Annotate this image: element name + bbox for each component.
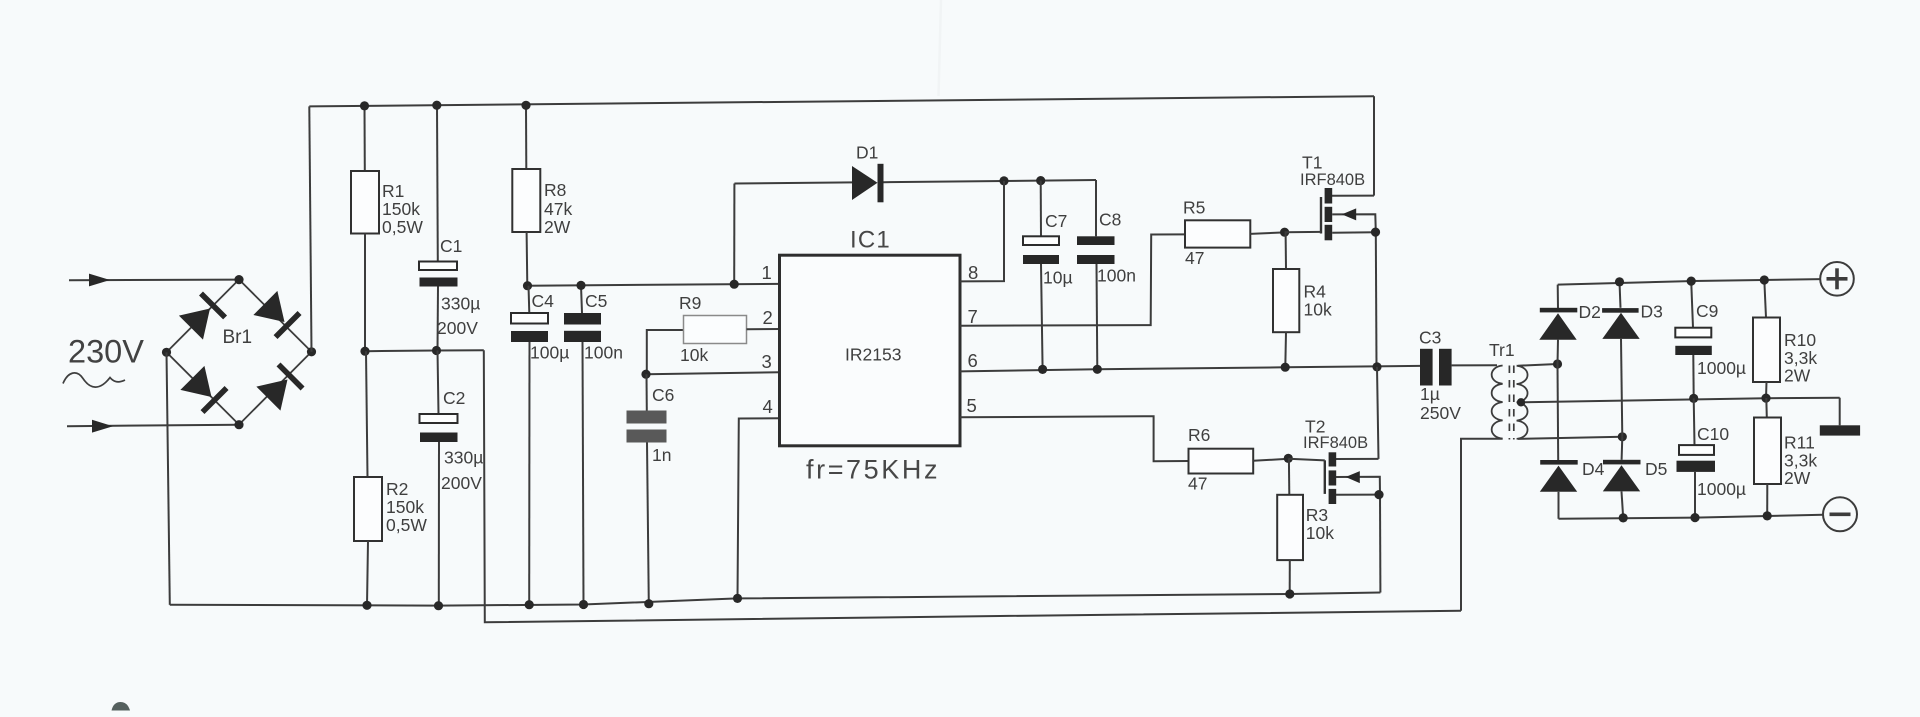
wire secondary center tap to output mid rail and ground — [1521, 398, 1840, 403]
wire IC pin 3 line — [646, 372, 780, 374]
svg-text:1000µ: 1000µ — [1697, 479, 1746, 499]
wire IC pin 6 switch-node line to C3 — [960, 366, 1420, 372]
svg-text:C9: C9 — [1696, 301, 1718, 321]
wire divider midpoint line — [365, 350, 484, 351]
svg-text:R1: R1 — [382, 181, 404, 201]
node bridge right — [307, 347, 316, 356]
svg-text:0,5W: 0,5W — [386, 515, 427, 535]
diode D5 — [1603, 437, 1668, 518]
svg-text:100n: 100n — [1097, 266, 1136, 286]
svg-text:47k: 47k — [544, 199, 572, 219]
svg-text:2W: 2W — [1784, 468, 1811, 488]
resistor R2 — [354, 351, 427, 605]
svg-text:8: 8 — [968, 262, 978, 283]
svg-text:250V: 250V — [1420, 403, 1461, 423]
node pin6 line / T1-T2 column — [1372, 362, 1381, 371]
resistor R9 — [647, 293, 780, 374]
diode D3 — [1602, 282, 1663, 437]
wire bridge left node down to ground rail — [167, 352, 170, 605]
wire IC pin 5 to R6 — [960, 416, 1189, 461]
wire midpoint to primary return rail — [484, 350, 1461, 622]
svg-text:R6: R6 — [1188, 425, 1210, 445]
svg-text:IRF840B: IRF840B — [1300, 171, 1365, 189]
svg-text:100n: 100n — [584, 343, 623, 363]
svg-text:100µ: 100µ — [530, 343, 569, 363]
diode D1 — [734, 143, 1096, 285]
node pin6 line / C7 — [1038, 365, 1047, 374]
svg-text:Br1: Br1 — [223, 327, 253, 348]
node ground rail / C5 — [579, 600, 588, 609]
capacitor C7 — [1023, 181, 1073, 370]
wire secondary top lead — [1518, 364, 1558, 366]
svg-text:0,5W: 0,5W — [382, 217, 423, 237]
resistor R10 — [1753, 280, 1817, 398]
resistor R5 — [1183, 198, 1285, 269]
node pin3 / R9 / C6 — [641, 370, 650, 379]
node ground rail / C6 — [644, 599, 653, 608]
node pin6 line / C8 — [1093, 365, 1102, 374]
IC U1 IC1 IR2153 — [780, 227, 961, 485]
capacitor C5 — [564, 285, 623, 604]
svg-text:47: 47 — [1188, 474, 1207, 494]
node output mid rail / R10 R11 — [1761, 394, 1770, 403]
svg-text:C4: C4 — [532, 291, 555, 311]
svg-text:R2: R2 — [386, 479, 408, 499]
svg-text:C7: C7 — [1045, 211, 1067, 231]
svg-text:IR2153: IR2153 — [845, 345, 901, 365]
svg-text:330µ: 330µ — [444, 448, 483, 468]
node T1 source — [1371, 228, 1380, 237]
scan speck artifact — [112, 702, 131, 711]
wire AC input top with arrow — [69, 274, 239, 287]
node pin6 line / R4 — [1281, 363, 1290, 372]
transistor Q2 T2 IRF840B — [1289, 367, 1381, 593]
svg-text:10k: 10k — [1304, 300, 1332, 320]
svg-text:2: 2 — [763, 307, 773, 328]
wire IC pin 4 line down to ground rail — [738, 418, 780, 598]
node pin1 line / D1 branch — [730, 280, 739, 289]
wire AC input bottom with arrow — [67, 420, 239, 433]
node output bottom rail / D5 — [1619, 513, 1628, 522]
node plus output terminal — [1820, 262, 1854, 296]
node output top rail / R10 — [1760, 275, 1769, 284]
resistor R3 — [1277, 459, 1334, 594]
svg-text:2W: 2W — [544, 217, 571, 237]
svg-text:2W: 2W — [1784, 366, 1811, 386]
svg-text:R11: R11 — [1784, 433, 1815, 453]
node secondary top / D2 D4 — [1553, 359, 1562, 368]
svg-text:200V: 200V — [437, 318, 478, 338]
node T2 gate / R6 / R3 — [1284, 454, 1293, 463]
wire secondary bottom lead — [1518, 437, 1622, 439]
node ground rail / R2 — [362, 601, 371, 610]
wire output top rail — [1558, 279, 1821, 285]
svg-text:C8: C8 — [1099, 210, 1121, 230]
svg-text:10k: 10k — [1306, 523, 1334, 543]
svg-text:R8: R8 — [544, 180, 566, 200]
diode D2 — [1539, 285, 1601, 364]
svg-text:T1: T1 — [1302, 153, 1322, 173]
ground — [1820, 398, 1860, 436]
resistor R6 — [1188, 425, 1289, 494]
svg-text:7: 7 — [968, 306, 978, 327]
bridge rectifier Br1 — [167, 280, 312, 425]
wire IC pin 8 up to D1 output — [960, 181, 1004, 282]
node top rail / R1 — [360, 101, 369, 110]
svg-text:10k: 10k — [680, 345, 708, 365]
node ground rail / C4 — [525, 600, 534, 609]
transistor Q1 T1 IRF840B — [1285, 96, 1377, 367]
capacitor C2 — [420, 351, 484, 606]
svg-text:D1: D1 — [856, 143, 878, 163]
node ground rail / R3 — [1285, 589, 1294, 598]
node bridge left — [162, 348, 171, 357]
svg-text:47: 47 — [1185, 248, 1204, 268]
svg-text:D3: D3 — [1641, 302, 1663, 322]
wire bridge right node to top rail — [309, 106, 311, 351]
resistor R11 — [1754, 398, 1817, 516]
svg-text:150k: 150k — [386, 497, 424, 517]
resistor R8 — [512, 105, 572, 285]
svg-text:fr=75KHz: fr=75KHz — [806, 455, 940, 485]
svg-text:R5: R5 — [1183, 198, 1205, 218]
node midpoint / C1 C2 — [432, 346, 441, 355]
capacitor C3 — [1419, 328, 1497, 424]
svg-text:C6: C6 — [652, 385, 674, 405]
svg-text:330µ: 330µ — [441, 294, 480, 314]
svg-text:4: 4 — [763, 396, 773, 417]
diode D4 — [1540, 364, 1605, 519]
svg-text:D2: D2 — [1579, 302, 1601, 322]
svg-text:1: 1 — [762, 262, 772, 283]
svg-text:1µ: 1µ — [1420, 384, 1440, 404]
svg-text:R3: R3 — [1306, 505, 1328, 525]
node R8 / C4 / pin1 line — [523, 281, 532, 290]
node minus output terminal — [1823, 497, 1857, 531]
capacitor C1 — [419, 105, 480, 350]
node output top rail / C9 — [1687, 277, 1696, 286]
svg-text:IRF840B: IRF840B — [1303, 434, 1368, 452]
svg-text:R4: R4 — [1304, 282, 1327, 302]
node ground rail / pin4 — [733, 594, 742, 603]
node D1 line / pin8 branch — [999, 176, 1008, 185]
node secondary center tap — [1517, 398, 1525, 406]
capacitor C10 — [1677, 398, 1747, 517]
wire Vcc line R8 to IC pin 1 — [527, 284, 779, 286]
svg-text:5: 5 — [967, 395, 977, 416]
wire bottom ground rail — [170, 593, 1381, 606]
node T2 source — [1374, 490, 1383, 499]
svg-text:3: 3 — [762, 351, 772, 372]
node output mid rail / C9 C10 — [1689, 394, 1698, 403]
svg-text:6: 6 — [968, 350, 978, 371]
svg-text:Tr1: Tr1 — [1489, 340, 1515, 360]
wire output bottom rail — [1559, 515, 1824, 519]
svg-text:R9: R9 — [679, 293, 701, 313]
svg-text:R10: R10 — [1784, 330, 1816, 350]
capacitor C4 — [511, 286, 569, 605]
node pin1 line / C5 — [576, 281, 585, 290]
svg-text:200V: 200V — [441, 473, 482, 493]
capacitor C9 — [1675, 281, 1746, 398]
230V AC source label — [63, 334, 144, 388]
node bridge top — [234, 275, 243, 284]
node D1 line / C7 branch — [1036, 176, 1045, 185]
wire top supply rail — [309, 96, 1374, 106]
svg-text:C2: C2 — [443, 388, 465, 408]
node midpoint / R1 R2 — [360, 347, 369, 356]
svg-text:1n: 1n — [652, 445, 671, 465]
svg-text:230V: 230V — [68, 334, 144, 370]
svg-text:10µ: 10µ — [1043, 268, 1073, 288]
capacitor C8 — [1077, 180, 1136, 369]
node ground rail / C2 — [434, 601, 443, 610]
transformer Tr1 — [1461, 340, 1528, 611]
node secondary bottom / D3 D5 — [1618, 432, 1627, 441]
scan crease artifact — [939, 0, 942, 96]
svg-text:IC1: IC1 — [850, 227, 891, 254]
resistor R1 — [351, 106, 423, 351]
node T1 gate / R5 / R4 — [1280, 228, 1289, 237]
node top rail / R8 — [521, 101, 530, 110]
svg-text:D5: D5 — [1645, 459, 1667, 479]
svg-text:D4: D4 — [1582, 459, 1605, 479]
node bridge bottom — [234, 420, 243, 429]
node top rail / C1 — [432, 101, 441, 110]
svg-text:C3: C3 — [1419, 328, 1441, 348]
svg-text:C10: C10 — [1697, 424, 1729, 444]
resistor R4 — [1273, 232, 1332, 367]
svg-text:C1: C1 — [440, 236, 462, 256]
capacitor C6 — [627, 374, 675, 604]
node output top rail / D3 — [1615, 277, 1624, 286]
wire IC pin 7 up to R5 — [960, 234, 1185, 325]
svg-text:1000µ: 1000µ — [1697, 358, 1746, 378]
svg-text:C5: C5 — [585, 291, 607, 311]
node output bottom rail / C10 — [1690, 513, 1699, 522]
node output bottom rail / R11 — [1763, 511, 1772, 520]
svg-text:150k: 150k — [382, 199, 420, 219]
